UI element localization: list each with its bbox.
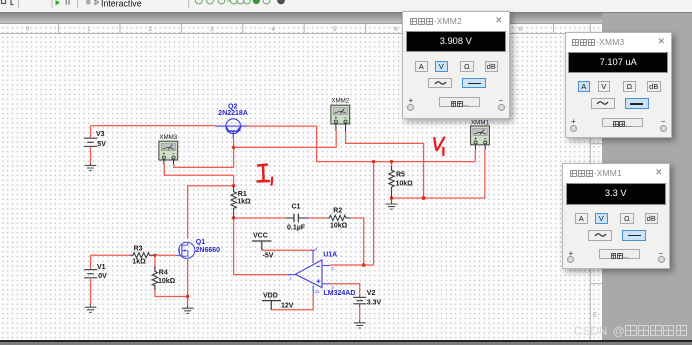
wire inverting node up to V1 rail — [373, 162, 375, 265]
svg-text:XMM3: XMM3 — [159, 134, 177, 141]
resistor R1 vertical — [231, 186, 236, 218]
VDD power symbol — [262, 301, 281, 310]
op-amp U1A triangle — [295, 260, 322, 288]
multimeter window XMM1 — [562, 163, 670, 269]
svg-text:3.3V: 3.3V — [367, 300, 382, 307]
annotation voltage V1 — [434, 138, 444, 155]
wire feedback rail R1 bottom through C1 R2 — [234, 217, 364, 219]
svg-text:Interactive: Interactive — [101, 0, 142, 9]
battery V1 — [84, 270, 97, 278]
resistor R2 horizontal — [328, 215, 351, 220]
svg-text:10kΩ: 10kΩ — [158, 278, 176, 285]
svg-text:R2: R2 — [333, 207, 342, 214]
svg-text:0V: 0V — [98, 273, 107, 280]
wire XMM2 right terminal to R5 bottom rail — [346, 131, 424, 199]
wire V1 leads — [90, 255, 92, 304]
svg-text:V2: V2 — [367, 290, 376, 297]
instrument icon XMM1 — [471, 126, 490, 150]
annotation current I1 — [258, 165, 273, 185]
svg-text:-5V: -5V — [263, 253, 274, 260]
svg-text:2: 2 — [149, 26, 153, 33]
ground below V2 — [354, 320, 366, 328]
svg-text:5: 5 — [333, 26, 337, 33]
ground below R5 — [386, 198, 398, 209]
svg-text:0: 0 — [26, 26, 30, 33]
wire R4 bottom to Q1 source — [155, 286, 188, 296]
svg-text:2: 2 — [331, 266, 334, 271]
wire R5 top stub — [391, 162, 393, 171]
svg-text:3: 3 — [210, 26, 214, 33]
svg-text:10kΩ: 10kΩ — [396, 180, 414, 187]
svg-text:R1: R1 — [238, 191, 247, 198]
op-amp input polarity marks — [316, 266, 320, 283]
capacitor C1 — [286, 214, 308, 222]
wire R4 top stub — [154, 255, 156, 271]
Q1 arrow — [182, 249, 185, 251]
svg-text:E: E — [593, 312, 597, 319]
svg-text:6: 6 — [394, 26, 398, 33]
svg-text:V3: V3 — [96, 131, 105, 138]
transistor Q1 (MOSFET 2N6660) — [175, 242, 195, 258]
svg-text:U1A: U1A — [323, 252, 337, 259]
wire emitter junction to XMM2 left terminal — [234, 131, 337, 148]
sheet border band bottom line — [0, 33, 602, 35]
wire R3 to Q1 gate — [153, 254, 175, 256]
wire emitter to XMM3 right terminal — [174, 164, 234, 168]
sheet border band numbers — [26, 26, 523, 33]
svg-text:0.1µF: 0.1µF — [287, 224, 306, 231]
multimeter window XMM2 — [402, 11, 510, 119]
svg-text:V1: V1 — [97, 264, 106, 271]
svg-text:R5: R5 — [396, 171, 405, 178]
wire Q2 right to node V1 run (down and across to XMM1 left) — [248, 126, 476, 162]
instrument icon XMM3 — [159, 141, 178, 164]
svg-text:4: 4 — [315, 247, 318, 252]
instrument icon XMM2 — [331, 105, 350, 131]
sheet right inner border — [589, 34, 591, 341]
toolbar left partial icons — [2, 0, 14, 5]
toolbar run button — [56, 0, 61, 5]
svg-text:XMM1: XMM1 — [471, 120, 489, 127]
Q2 emitter arrow — [237, 127, 240, 130]
wire XMM3 left terminal to R1 top junction — [164, 164, 233, 186]
transistor Q2 (BJT 2N2218A) — [215, 119, 248, 139]
battery V2 — [353, 296, 366, 308]
ground below V1 — [85, 305, 97, 313]
svg-text:R4: R4 — [159, 270, 168, 277]
svg-text:VDD: VDD — [263, 292, 278, 299]
svg-text:8: 8 — [519, 26, 523, 33]
svg-text:C1: C1 — [292, 204, 301, 211]
svg-text:4: 4 — [271, 26, 275, 33]
wire R5 bottom rail to XMM1 right terminal — [392, 150, 485, 199]
svg-text:5V: 5V — [97, 141, 106, 148]
junction dots — [153, 146, 425, 298]
op-amp non-inverting pin 3 — [322, 283, 330, 285]
ground below Q1 — [182, 306, 194, 314]
svg-text:R3: R3 — [134, 245, 143, 252]
wire V2 bottom to ground — [359, 308, 361, 321]
toolbar pause button — [66, 0, 69, 5]
svg-text:Q1: Q1 — [196, 239, 205, 246]
svg-text:1: 1 — [289, 276, 292, 281]
svg-text:LM324AD: LM324AD — [324, 290, 356, 297]
wire inverting input segment — [330, 264, 374, 266]
op-amp inverting pin 2 — [322, 265, 330, 267]
svg-text:2N6660: 2N6660 — [196, 247, 221, 254]
wire V1 to R3 — [91, 254, 131, 256]
toolbar dark icon — [278, 0, 285, 4]
wire R2 right down to inverting input — [363, 218, 365, 265]
toolbar probe icons — [195, 0, 269, 4]
battery V3 — [84, 138, 97, 146]
toolbar interactive icon — [95, 0, 99, 4]
op-amp output pin 1 — [288, 274, 296, 276]
toolbar stop button — [86, 0, 90, 4]
wire V3 leads — [90, 126, 92, 163]
wire junction to Q1 drain — [188, 186, 234, 239]
sheet border band dividers — [59, 24, 591, 34]
sheet border band top line — [0, 23, 602, 25]
svg-text:1kΩ: 1kΩ — [237, 199, 251, 206]
resistor R5 vertical — [389, 166, 394, 198]
op-amp positive supply pin 4 — [311, 250, 315, 263]
multimeter window XMM3 — [565, 32, 673, 138]
wire Q2 emitter down — [233, 139, 235, 168]
svg-text:XMM2: XMM2 — [331, 98, 349, 105]
wire XMM1 left terminal drop — [474, 150, 476, 162]
ground below V3 — [85, 163, 97, 171]
svg-text:1kΩ: 1kΩ — [132, 258, 146, 265]
wire non-inverting input to V2 — [330, 284, 360, 296]
toolbar separators — [19, 0, 189, 8]
wire V3 to Q2 base — [91, 125, 216, 127]
op-amp negative supply pin 11 — [312, 286, 314, 294]
wire Q1 source down to ground — [187, 259, 189, 306]
wire VCC to op-amp pin4 — [262, 249, 313, 251]
resistor R3 horizontal — [131, 253, 154, 258]
svg-text:12V: 12V — [281, 302, 294, 309]
svg-text:11: 11 — [315, 289, 320, 294]
wire op-amp output run — [234, 218, 288, 275]
svg-text:10kΩ: 10kΩ — [330, 222, 348, 229]
svg-text:1: 1 — [87, 26, 91, 33]
resistor R4 vertical — [152, 266, 157, 290]
svg-text:2N2218A: 2N2218A — [218, 110, 248, 117]
VCC power symbol — [252, 241, 272, 250]
svg-text:VCC: VCC — [253, 232, 268, 239]
sheet right border ticks — [590, 144, 602, 284]
wire VDD to op-amp pin11 — [271, 294, 313, 310]
